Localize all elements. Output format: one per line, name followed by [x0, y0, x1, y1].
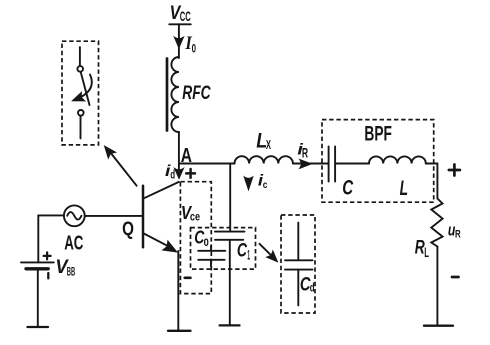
svg-text:c: c	[263, 179, 268, 191]
wire emitter down	[177, 251, 179, 331]
svg-text:d: d	[310, 281, 315, 295]
wire base to AC source	[85, 215, 143, 217]
wire left rail down to battery	[37, 215, 39, 261]
switch motion curved arrow	[80, 75, 92, 98]
ground right rail	[424, 325, 453, 327]
inductor RFC core bar	[166, 59, 169, 131]
switch blade	[81, 72, 90, 105]
node A horizontal wire	[179, 163, 235, 165]
label minus tick VBB	[47, 273, 49, 278]
Vcc supply terminal bar	[169, 23, 191, 25]
svg-text:A: A	[181, 145, 192, 167]
svg-text:RFC: RFC	[182, 83, 210, 104]
svg-text:R: R	[302, 146, 308, 161]
ground C1	[220, 324, 240, 326]
dashed box Vce	[180, 182, 211, 294]
capacitor Cd plates	[285, 259, 313, 261]
label minus Vce	[185, 276, 191, 279]
svg-text:R: R	[455, 229, 461, 241]
transistor Q emitter arrowhead	[163, 241, 177, 252]
capacitor C0 plates	[198, 250, 225, 252]
wire C to L	[335, 163, 369, 165]
wire RFC to node A	[178, 132, 180, 164]
switch bottom contact circle	[78, 110, 84, 116]
transistor Q emitter line	[144, 234, 172, 249]
arrow pointing to Cd box	[260, 244, 272, 255]
wire battery to ground	[37, 270, 39, 327]
svg-text:Q: Q	[122, 219, 134, 240]
wire RL to ground	[436, 247, 438, 326]
label minus uR	[452, 276, 459, 279]
label plus Vce top	[186, 169, 195, 178]
switch bottom lead	[80, 116, 82, 138]
svg-text:CC: CC	[180, 9, 191, 24]
wire Lx to capacitor C	[293, 163, 328, 165]
wire L to right rail	[426, 164, 438, 199]
svg-text:C: C	[342, 176, 353, 199]
arrow id collector current	[178, 164, 180, 171]
inductor L	[369, 156, 426, 163]
capacitor Cd wire top	[297, 223, 299, 260]
svg-text:0: 0	[192, 41, 197, 55]
svg-text:L: L	[424, 244, 429, 260]
arrow iR current right	[300, 159, 312, 168]
svg-text:C: C	[237, 240, 248, 262]
dashed box BPF	[322, 120, 434, 203]
wire AC to left corner	[38, 214, 64, 216]
switch top lead	[79, 47, 81, 66]
capacitor C plates	[328, 147, 330, 182]
dashed box Cd	[281, 215, 315, 313]
label plus uR	[449, 165, 460, 176]
wire node A branch down to C1	[229, 164, 231, 232]
ground VBB	[28, 326, 49, 328]
svg-text:ce: ce	[190, 210, 200, 224]
svg-text:1: 1	[247, 248, 250, 263]
transistor Q base bar	[142, 186, 145, 248]
inductor RFC coil	[171, 57, 178, 132]
svg-text:BPF: BPF	[364, 121, 392, 145]
label plus VBB	[44, 252, 51, 259]
dashed box switch	[62, 41, 99, 145]
capacitor C0 top stub	[210, 246, 212, 251]
transistor Q collector line	[144, 182, 179, 198]
svg-text:0: 0	[204, 237, 209, 249]
switch top contact circle	[77, 66, 83, 72]
wire C1 to ground	[229, 240, 231, 325]
capacitor C1 plates	[215, 231, 244, 233]
svg-text:d: d	[170, 168, 175, 182]
wire Vcc to RFC top	[178, 24, 180, 58]
arrow ic current down	[244, 177, 253, 190]
svg-text:X: X	[266, 137, 271, 152]
battery VBB long plate	[21, 261, 54, 263]
arrow I0 current down	[174, 37, 183, 48]
battery VBB short plate	[26, 267, 48, 270]
svg-text:R: R	[415, 236, 425, 258]
svg-text:BB: BB	[67, 264, 76, 278]
svg-text:L: L	[400, 176, 408, 200]
AC source circle	[64, 205, 85, 226]
inductor Lx	[235, 156, 293, 163]
ground emitter	[168, 330, 191, 332]
AC source sine wave	[67, 212, 81, 220]
svg-text:AC: AC	[64, 232, 83, 255]
arrow pointing to switch box	[110, 152, 137, 186]
capacitor C0 bottom stub	[210, 260, 212, 267]
resistor RL zigzag	[431, 199, 442, 247]
capacitor Cd wire bottom	[297, 270, 299, 306]
dashed box C0 C1	[191, 228, 256, 270]
